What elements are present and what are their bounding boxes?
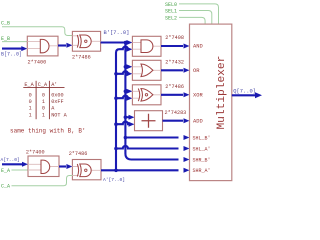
bus A[7..0] [2, 163, 22, 165]
gate U8 box (2*7486 bottom) [72, 160, 101, 180]
junction A' at ADD [114, 122, 118, 126]
gate U7 box (2*7400 bottom) [28, 156, 59, 177]
svg-text:C_B: C_B [1, 21, 10, 27]
bus A' vertical with top bend to AND input [116, 47, 129, 171]
svg-text:2*7486: 2*7486 [69, 151, 88, 157]
svg-text:2*7400: 2*7400 [26, 150, 45, 156]
svg-text:0: 0 [42, 92, 45, 98]
wire B' to XOR in1 [125, 90, 128, 92]
svg-text:A': A' [51, 82, 57, 88]
wire B' to ADD in1 [125, 116, 130, 118]
svg-text:E_A: E_A [1, 168, 10, 174]
svg-text:Q[7..0]: Q[7..0] [233, 88, 256, 94]
gate U7 pins [28, 164, 59, 170]
adder U6 box (2*74283) [135, 111, 163, 131]
gate U3 pins [132, 43, 161, 50]
wire E_B [2, 41, 27, 43]
svg-text:2*74283: 2*74283 [165, 110, 187, 116]
svg-text:0: 0 [42, 106, 45, 112]
svg-text:NOT A: NOT A [51, 112, 67, 118]
svg-text:0xFF: 0xFF [51, 99, 63, 105]
svg-text:AND: AND [193, 44, 203, 50]
svg-text:1: 1 [42, 112, 45, 118]
svg-text:C_A: C_A [1, 184, 10, 190]
svg-text:same thing with B, B': same thing with B, B' [10, 128, 86, 135]
svg-text:SHR_B': SHR_B' [193, 157, 211, 163]
wire U7 out to U8 [59, 165, 66, 167]
svg-text:A'[7..0]: A'[7..0] [103, 177, 125, 183]
gate U5 XOR symbol [138, 89, 139, 102]
svg-text:2*7486: 2*7486 [165, 84, 184, 90]
gate U2 pins [72, 36, 100, 46]
junction A' at SHL_A' [114, 147, 118, 151]
gate U8 XOR symbol [77, 164, 78, 177]
junction B' at OR [124, 65, 128, 69]
svg-text:OR: OR [193, 68, 200, 74]
svg-text:0x00: 0x00 [51, 92, 63, 98]
gate U3 box (2*7408 AND) [132, 36, 161, 56]
gate U2 box (2*7486 top) [72, 31, 100, 51]
gate U5 box (2*7486 XOR) [132, 85, 161, 105]
adder U6 plus symbol [142, 114, 156, 128]
svg-text:E_A: E_A [24, 82, 34, 88]
svg-text:XOR: XOR [193, 93, 203, 99]
svg-text:SHL_B': SHL_B' [193, 135, 211, 141]
wire E_A [12, 169, 29, 171]
svg-text:SEL0: SEL0 [165, 2, 177, 8]
svg-text:SEL2: SEL2 [165, 16, 177, 22]
truth table rule vertical 2 [48, 81, 50, 119]
gate U4 box (2*7432 OR) [132, 60, 161, 80]
bus A'[7..0] (SHR_A' run) [101, 169, 179, 171]
svg-text:SHR_A': SHR_A' [193, 168, 211, 174]
svg-text:SEL1: SEL1 [165, 9, 177, 15]
svg-text:B'[7..0]: B'[7..0] [104, 30, 130, 36]
bus OR out [161, 69, 183, 71]
svg-text:2*7432: 2*7432 [165, 60, 184, 66]
bus Q[7..0] [232, 94, 256, 96]
bus AND out [161, 45, 183, 47]
wire C_B [2, 27, 72, 36]
junction A' at OR [114, 72, 118, 76]
bus B'[7..0] [101, 41, 127, 43]
wire A' to ADD in2 with hop [116, 122, 131, 125]
svg-text:0: 0 [29, 92, 32, 98]
gate U3 AND symbol [141, 40, 153, 53]
truth table rule horizontal [23, 86, 64, 88]
wire U1 out to U2 [58, 44, 66, 46]
wire A' to XOR in2 with hop [116, 96, 129, 99]
wire SEL2 [179, 17, 205, 24]
svg-text:2*7408: 2*7408 [165, 35, 184, 41]
gate U5 pins [132, 91, 161, 98]
svg-text:A[7..0]: A[7..0] [1, 157, 20, 163]
svg-text:1: 1 [42, 99, 45, 105]
junction B' at ADD [124, 115, 128, 119]
svg-text:B[7..0]: B[7..0] [1, 52, 22, 58]
junction B' at SHL_B' [124, 136, 128, 140]
bus ADD out [163, 120, 184, 122]
svg-text:Multiplexer: Multiplexer [216, 56, 228, 130]
wire SHL_B' [125, 136, 178, 138]
multiplexer U9 box [190, 24, 232, 181]
bus B' vertical with SHR_B' bend [125, 43, 178, 160]
bus XOR out [161, 94, 183, 96]
gate U1 AND symbol [40, 39, 49, 52]
wire SEL0 [179, 4, 219, 24]
gate U8 pins [72, 167, 101, 176]
junction B' at XOR [124, 90, 128, 94]
wire B' to OR in1 [125, 66, 128, 68]
junction A' bottom [114, 169, 118, 173]
svg-text:SHL_A': SHL_A' [193, 146, 211, 152]
gate U2 XOR symbol [77, 35, 78, 48]
junction A' at XOR [114, 96, 118, 100]
svg-text:2*7486: 2*7486 [72, 55, 91, 61]
gate U7 AND symbol [41, 160, 50, 173]
gate U4 OR symbol [141, 64, 153, 77]
svg-text:2*7400: 2*7400 [28, 59, 47, 65]
svg-text:C_A: C_A [38, 82, 48, 88]
wire SEL1 [179, 11, 212, 25]
gate U4 pins [132, 67, 161, 74]
junction B' top [124, 41, 128, 45]
gate U1 box (2*7400 top) [27, 36, 58, 56]
svg-text:0: 0 [29, 99, 32, 105]
gate U1 pins [27, 42, 58, 49]
truth table rule vertical 1 [35, 81, 37, 119]
bus B[7..0] [2, 48, 22, 50]
svg-text:ADD: ADD [193, 118, 203, 124]
wire A' to OR in2 with hop [116, 71, 129, 74]
wire C_A [12, 176, 73, 186]
svg-text:1: 1 [29, 112, 32, 118]
svg-text:1: 1 [29, 106, 32, 112]
wire SHL_A' with hop [116, 146, 179, 149]
